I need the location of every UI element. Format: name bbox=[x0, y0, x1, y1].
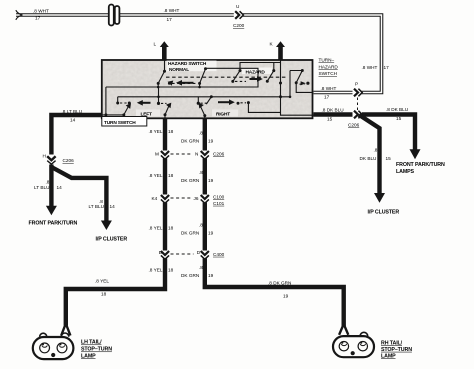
node normal-right lower contact bbox=[198, 82, 201, 85]
svg-text:LH TAIL/: LH TAIL/ bbox=[81, 340, 102, 346]
svg-text:STOP–TURN: STOP–TURN bbox=[381, 347, 412, 353]
svg-text:RIGHT: RIGHT bbox=[216, 111, 230, 117]
node normal-left lower contact bbox=[157, 82, 160, 85]
junction LT BLU feed bbox=[104, 113, 107, 116]
svg-text:STOP–TURN: STOP–TURN bbox=[81, 347, 112, 353]
node RIGHT contact bbox=[197, 102, 200, 105]
node hazard-right aux contact bbox=[306, 82, 309, 85]
svg-text:.8 LT BLU: .8 LT BLU bbox=[62, 109, 83, 114]
node right row end contact bbox=[247, 101, 250, 104]
wire .8 DK BLU (right) bbox=[314, 115, 416, 151]
svg-text:L: L bbox=[154, 41, 157, 46]
junction bus B / RIGHT arm bbox=[210, 95, 213, 98]
svg-text:DK GRN: DK GRN bbox=[181, 273, 199, 278]
dash-dot segment normal row bbox=[172, 82, 196, 84]
svg-text:P: P bbox=[355, 82, 358, 87]
wire .8 DK GRN vertical bbox=[205, 118, 344, 326]
svg-text:.8 WHT: .8 WHT bbox=[321, 86, 337, 91]
svg-text:.8: .8 bbox=[199, 265, 203, 270]
wiper arrowhead yel bbox=[166, 103, 171, 109]
svg-text:14: 14 bbox=[70, 117, 76, 122]
svg-text:I/P CLUSTER: I/P CLUSTER bbox=[96, 236, 128, 242]
label .8 DK BLU 15 (branch) bbox=[360, 148, 392, 162]
wire bus B left drop bbox=[117, 97, 119, 103]
svg-text:TURN SWITCH: TURN SWITCH bbox=[104, 120, 136, 126]
svg-text:DK GRN: DK GRN bbox=[181, 139, 199, 144]
wire .8 DK BLU branch to I/P cluster bbox=[359, 115, 380, 194]
svg-text:.8: .8 bbox=[199, 131, 203, 136]
RH tail lamp assembly bbox=[333, 332, 374, 357]
label .8 WHT 17 (mid segment) bbox=[164, 8, 180, 22]
dash segment far right bbox=[300, 83, 305, 85]
node turn-left feed contact bbox=[116, 102, 119, 105]
label .8 DK GRN 19 (below switch) bbox=[181, 131, 214, 144]
dash-dot segment hazard row bbox=[235, 80, 246, 82]
label LH TAIL/STOP-TURN LAMP bbox=[81, 340, 112, 360]
svg-text:17: 17 bbox=[167, 17, 173, 22]
label .8 YEL 18 (segment 3) bbox=[149, 226, 174, 231]
svg-text:.8: .8 bbox=[46, 179, 50, 184]
label RH TAIL/STOP-TURN LAMP bbox=[381, 340, 412, 359]
svg-text:N: N bbox=[195, 151, 198, 156]
svg-text:C206: C206 bbox=[213, 152, 225, 157]
node turn-left wiper base bbox=[122, 113, 125, 116]
svg-text:18: 18 bbox=[168, 268, 174, 273]
node K line contact bbox=[279, 82, 282, 85]
svg-text:RH TAIL/: RH TAIL/ bbox=[381, 340, 403, 346]
grommet on .8 WHT wire bbox=[109, 5, 120, 26]
connector C400 cavities B and D bbox=[159, 250, 225, 259]
label .8 DK GRN 19 (segment 4) bbox=[181, 265, 214, 278]
label .8 LT BLU 14 (front park branch) bbox=[34, 179, 62, 190]
svg-text:DK BLU: DK BLU bbox=[360, 156, 378, 161]
svg-text:.8: .8 bbox=[374, 148, 378, 153]
svg-text:18: 18 bbox=[101, 292, 107, 297]
svg-text:18: 18 bbox=[168, 129, 174, 134]
node hazard-right upper contact bbox=[301, 69, 304, 72]
arrow K (to hazard flasher) bbox=[270, 41, 286, 60]
svg-text:15: 15 bbox=[386, 156, 392, 161]
switch wiper (from DK GRN wire) bbox=[200, 106, 204, 118]
svg-text:HAZARD: HAZARD bbox=[246, 70, 266, 76]
svg-text:C206: C206 bbox=[348, 122, 360, 127]
svg-text:C100: C100 bbox=[213, 194, 225, 199]
svg-text:HAZARD: HAZARD bbox=[319, 64, 339, 69]
svg-text:LAMPS: LAMPS bbox=[396, 169, 415, 175]
arrow to front park/turn lamps (right) bbox=[410, 149, 421, 159]
turn-hazard switch U1 body bbox=[102, 60, 313, 126]
svg-text:19: 19 bbox=[208, 178, 214, 183]
svg-text:FRONT PARK/TURN: FRONT PARK/TURN bbox=[29, 221, 78, 227]
node hazard-right lower contact bbox=[295, 81, 298, 84]
label .8 WHT 17 (right vertical segment) bbox=[362, 65, 390, 70]
switch contact arm (hazard-right) bbox=[290, 71, 314, 93]
svg-text:C200: C200 bbox=[233, 23, 245, 28]
wire .8 WHT circuit (hollow double line) bbox=[16, 15, 382, 93]
switch contact arm (normal-right) bbox=[200, 69, 206, 87]
svg-text:17: 17 bbox=[35, 16, 41, 21]
junction bus B / LEFT drop bbox=[157, 96, 160, 99]
small wiper arrowhead normal-left bbox=[168, 81, 174, 86]
switch wiper (turn-left, from LT BLU) bbox=[124, 106, 129, 115]
switch contact arm (hazard-left) bbox=[233, 71, 240, 82]
svg-text:18: 18 bbox=[168, 173, 174, 178]
connector C100/C101 cavities K4 and J6 bbox=[152, 194, 225, 206]
svg-text:M: M bbox=[155, 151, 159, 156]
wire K branch to hazard contacts bbox=[240, 63, 281, 71]
wire bus B bbox=[118, 96, 290, 98]
wire end fork (left) bbox=[16, 10, 23, 20]
svg-text:.8: .8 bbox=[199, 223, 203, 228]
label TURN-HAZARD SWITCH bbox=[319, 58, 339, 77]
svg-text:.8 WHT: .8 WHT bbox=[362, 65, 378, 70]
label .8 YEL 18 (segment 4) bbox=[149, 268, 174, 273]
svg-text:D: D bbox=[197, 250, 201, 255]
svg-text:17: 17 bbox=[324, 95, 330, 100]
node DK GRN wiper base bbox=[203, 114, 206, 117]
junction dots inside switch bbox=[104, 67, 309, 117]
wire fork into RH lamp bbox=[339, 324, 348, 335]
junction bus A / normal-left bbox=[157, 86, 160, 89]
label FRONT PARK/TURN LAMPS (right) bbox=[396, 162, 445, 175]
arrow to I/P cluster (left) bbox=[101, 221, 112, 231]
dash segment LEFT contact bbox=[161, 102, 167, 104]
svg-text:LAMP: LAMP bbox=[381, 353, 396, 359]
label .8 DK GRN 19 (segment 2) bbox=[181, 170, 214, 183]
label .8 WHT 17 (left segment) bbox=[33, 9, 49, 21]
arrow to front park/turn (left) bbox=[46, 206, 57, 216]
connector C206 on .8 DK BLU bbox=[348, 110, 362, 127]
dashed hazard position line bbox=[166, 76, 288, 78]
svg-text:LT BLU: LT BLU bbox=[89, 204, 105, 209]
svg-text:.8 YEL: .8 YEL bbox=[95, 279, 109, 284]
wire bus B to RIGHT contact bbox=[197, 97, 199, 103]
node normal row center contact bbox=[168, 82, 171, 85]
label .8 DK GRN 19 (segment 3) bbox=[181, 223, 214, 236]
label .8 DK BLU 15 (left of C206) bbox=[322, 108, 345, 122]
svg-text:14: 14 bbox=[110, 204, 116, 209]
node LEFT contact bbox=[157, 102, 160, 105]
svg-text:K4: K4 bbox=[152, 196, 158, 201]
label .8 LT BLU 14 bbox=[62, 109, 83, 123]
svg-text:DK GRN: DK GRN bbox=[181, 231, 199, 236]
node hazard-mid lower contact bbox=[266, 80, 269, 83]
label HAZARD SWITCH NORMAL bbox=[168, 61, 207, 73]
arrow left (turn row position indicator) bbox=[137, 100, 151, 106]
svg-text:.8 YEL: .8 YEL bbox=[149, 268, 163, 273]
svg-text:C101: C101 bbox=[213, 201, 225, 206]
svg-text:.8 YEL: .8 YEL bbox=[149, 226, 163, 231]
LH tail lamp assembly bbox=[33, 333, 74, 359]
small arrowhead far right hazard row bbox=[301, 81, 306, 85]
wire L feed into switch bbox=[164, 60, 166, 71]
wiper arrowhead dk grn bbox=[199, 103, 204, 109]
connector C200 cavity U bbox=[233, 4, 245, 28]
connector C206 cavities M and N bbox=[155, 151, 225, 160]
svg-text:17: 17 bbox=[384, 65, 390, 70]
svg-text:LAMP: LAMP bbox=[81, 353, 96, 359]
svg-text:LT BLU: LT BLU bbox=[34, 185, 50, 190]
svg-text:19: 19 bbox=[208, 139, 214, 144]
node normal-right upper contact bbox=[204, 67, 207, 70]
node hazard-left lower contact bbox=[231, 80, 234, 83]
connector C206 cavity P on .8 WHT bbox=[353, 82, 363, 97]
svg-text:14: 14 bbox=[57, 185, 63, 190]
svg-text:.8: .8 bbox=[199, 170, 203, 175]
arrow right (hazard row position indicator) bbox=[250, 76, 263, 82]
label .8 DK GRN 19 (horizontal run) bbox=[268, 281, 291, 299]
switch wiper (from YEL wire) bbox=[165, 106, 169, 119]
arrow right (turn row position indicator) bbox=[218, 99, 235, 105]
label .8 WHT 17 (at P) bbox=[321, 86, 337, 100]
wire fork into LH lamp bbox=[61, 324, 70, 336]
svg-text:18: 18 bbox=[168, 226, 174, 231]
svg-text:B: B bbox=[159, 250, 162, 255]
junction bus A / normal-right bbox=[198, 86, 201, 89]
svg-text:.8 DK GRN: .8 DK GRN bbox=[268, 281, 291, 286]
node YEL wiper base bbox=[164, 113, 167, 116]
svg-text:.8 YEL: .8 YEL bbox=[149, 173, 163, 178]
junction K line / bus B bbox=[279, 95, 282, 98]
svg-text:15: 15 bbox=[396, 116, 402, 121]
svg-text:19: 19 bbox=[283, 294, 289, 299]
wire .8 YEL vertical bbox=[66, 118, 165, 325]
svg-text:J6: J6 bbox=[194, 196, 199, 201]
svg-text:TURN–: TURN– bbox=[319, 58, 335, 63]
dash-dot right of RIGHT arrow bbox=[241, 102, 247, 104]
svg-text:.8 DK BLU: .8 DK BLU bbox=[386, 107, 409, 112]
label .8 DK BLU 15 (right segment) bbox=[386, 107, 409, 121]
wire K feed bbox=[281, 60, 314, 115]
node L contact bbox=[163, 70, 166, 73]
label .8 YEL 18 (horizontal run) bbox=[95, 279, 109, 297]
arrow left (normal row position indicator) bbox=[176, 80, 194, 86]
svg-text:.8 WHT: .8 WHT bbox=[33, 9, 49, 14]
wire right contact drop bbox=[248, 103, 280, 113]
junction hazard drop / bus B bbox=[289, 96, 292, 99]
svg-text:.8 DK BLU: .8 DK BLU bbox=[322, 108, 345, 113]
svg-text:DK GRN: DK GRN bbox=[181, 178, 199, 183]
dash segment RIGHT contact bbox=[201, 102, 208, 104]
wire .8 LT BLU below C206 to front park/turn bbox=[49, 165, 53, 209]
svg-text:15: 15 bbox=[327, 117, 333, 122]
label .8 YEL 18 (segment 2) bbox=[149, 173, 174, 178]
node right row contact bbox=[237, 102, 240, 105]
wire .8 LT BLU branch to I/P cluster (left) bbox=[51, 167, 106, 222]
dash-dot left row bbox=[120, 102, 127, 104]
svg-text:.8 YEL: .8 YEL bbox=[149, 129, 163, 134]
svg-text:HAZARD SWITCH: HAZARD SWITCH bbox=[168, 61, 207, 67]
node hazard-left upper contact bbox=[239, 69, 242, 72]
label .8 YEL 18 (below switch) bbox=[149, 129, 174, 134]
node turn-left contact bbox=[128, 102, 131, 105]
svg-text:.8 WHT: .8 WHT bbox=[164, 8, 180, 13]
switch contact arm (normal-left) bbox=[158, 71, 164, 87]
connector C206 cavity H on .8 LT BLU bbox=[43, 154, 75, 165]
arrow to I/P cluster (right) bbox=[374, 193, 385, 203]
svg-text:C400: C400 bbox=[213, 252, 225, 257]
interior thin wires of turn-hazard switch bbox=[102, 60, 314, 118]
wire bus A to LEFT contact bbox=[158, 87, 160, 103]
switch contact arm right row bbox=[206, 97, 211, 104]
svg-text:FRONT PARK/TURN: FRONT PARK/TURN bbox=[396, 162, 445, 168]
svg-text:I/P CLUSTER: I/P CLUSTER bbox=[368, 210, 400, 216]
svg-text:19: 19 bbox=[208, 273, 214, 278]
arrow L (to turn signal flasher) bbox=[154, 41, 169, 60]
svg-text:H: H bbox=[43, 154, 46, 159]
label .8 LT BLU 14 (I/P branch) bbox=[89, 199, 116, 209]
svg-text:NORMAL: NORMAL bbox=[169, 67, 189, 73]
wiper arrowhead turn-left bbox=[126, 103, 131, 109]
wire hazard-right drop to bus B bbox=[289, 71, 291, 97]
svg-text:SWITCH: SWITCH bbox=[319, 71, 338, 76]
svg-text:19: 19 bbox=[208, 231, 214, 236]
wire bus A bbox=[106, 68, 258, 87]
wire bus A left drop bbox=[102, 87, 124, 115]
dashed link P to C206 bbox=[357, 98, 359, 111]
svg-text:LEFT: LEFT bbox=[141, 111, 153, 117]
wire .8 LT BLU (left) bbox=[51, 115, 101, 155]
node hazard-mid upper contact bbox=[272, 69, 275, 72]
svg-text:C206: C206 bbox=[63, 158, 75, 163]
switch contact arm (hazard-mid) bbox=[267, 63, 274, 82]
